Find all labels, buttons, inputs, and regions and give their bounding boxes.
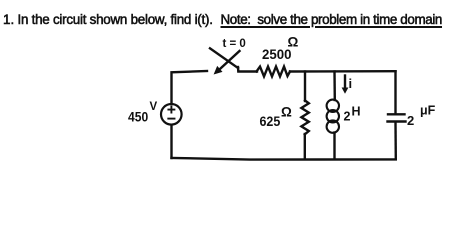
wire right branch top — [394, 71, 396, 113]
svg-text:450: 450 — [128, 110, 148, 125]
svg-text:Ω: Ω — [281, 104, 292, 119]
wire switch to resistor — [238, 67, 257, 72]
voltage source V 450 circle — [161, 104, 182, 125]
label V — [150, 101, 158, 113]
svg-text:625: 625 — [260, 113, 281, 129]
svg-text:V: V — [150, 101, 158, 113]
wire right branch bottom — [394, 123, 397, 160]
label i — [349, 76, 353, 91]
resistor R 2500 zigzag — [257, 67, 291, 77]
label ohm for 625 — [281, 104, 292, 119]
switch S1 blade — [210, 48, 238, 68]
svg-text:μF: μF — [420, 103, 436, 117]
svg-text:H: H — [352, 105, 361, 119]
wire 625 branch top — [304, 72, 306, 102]
capacitor C bottom plate — [388, 120, 406, 122]
svg-text:i: i — [349, 76, 353, 91]
label 2 uF — [407, 103, 436, 128]
label 450 — [128, 110, 148, 125]
wire resistor to right corner — [290, 70, 396, 73]
svg-text:2: 2 — [407, 113, 414, 128]
label 625 — [260, 113, 281, 129]
wire 625 branch bottom — [304, 134, 306, 159]
wire bottom — [172, 158, 396, 160]
svg-text:t = 0: t = 0 — [223, 38, 246, 50]
label 2 H — [344, 105, 361, 124]
switch S1 arrow stroke — [214, 51, 240, 75]
inductor L 2H coils — [327, 100, 339, 133]
voltage source plus sign — [168, 107, 174, 113]
capacitor C top plate — [388, 113, 405, 115]
voltage source minus sign — [168, 118, 174, 120]
wire source to bottom — [170, 125, 172, 158]
wire inductor branch top — [333, 72, 336, 101]
label t=0 — [223, 38, 246, 50]
resistor R 625 zigzag — [301, 101, 308, 135]
svg-text:Ω: Ω — [288, 35, 299, 50]
wire inductor branch bottom — [333, 133, 335, 159]
svg-text:2: 2 — [344, 110, 351, 124]
current arrow i — [342, 76, 349, 94]
label ohm for 2500 — [288, 35, 299, 50]
wire top-left from source to switch — [172, 71, 208, 104]
label 2500 — [262, 46, 292, 62]
